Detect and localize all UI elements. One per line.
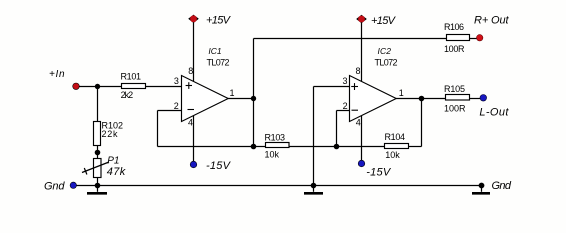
svg-text:8: 8: [356, 66, 361, 76]
svg-text:4: 4: [356, 118, 361, 128]
svg-text:2k2: 2k2: [121, 90, 134, 100]
svg-text:+In: +In: [49, 69, 65, 80]
svg-text:-15V: -15V: [206, 160, 232, 172]
svg-text:47k: 47k: [107, 166, 126, 178]
svg-text:100R: 100R: [444, 44, 465, 54]
svg-text:8: 8: [188, 66, 193, 76]
svg-text:R106: R106: [444, 22, 464, 32]
svg-text:P1: P1: [107, 156, 119, 167]
svg-text:Gnd: Gnd: [44, 181, 65, 193]
svg-text:1: 1: [399, 88, 404, 98]
svg-text:4: 4: [188, 118, 193, 128]
svg-text:TL072: TL072: [375, 58, 398, 68]
svg-text:100R: 100R: [444, 104, 466, 114]
svg-text:R105: R105: [444, 84, 465, 94]
svg-text:R104: R104: [385, 132, 406, 142]
svg-text:22k: 22k: [102, 129, 119, 139]
svg-text:+15V: +15V: [206, 14, 232, 26]
svg-text:IC2: IC2: [378, 46, 392, 56]
svg-text:2: 2: [174, 101, 179, 111]
svg-text:IC1: IC1: [208, 46, 222, 56]
svg-text:3: 3: [343, 76, 348, 86]
svg-text:10k: 10k: [265, 150, 280, 160]
svg-text:3: 3: [174, 76, 179, 86]
svg-text:R+ Out: R+ Out: [474, 15, 509, 27]
svg-text:R103: R103: [265, 132, 286, 142]
svg-text:TL072: TL072: [207, 58, 230, 68]
svg-text:L-Out: L-Out: [479, 107, 509, 119]
svg-text:1: 1: [230, 88, 235, 98]
svg-text:+15V: +15V: [371, 15, 397, 27]
svg-text:2: 2: [343, 101, 348, 111]
svg-text:10k: 10k: [385, 150, 400, 160]
svg-text:R101: R101: [121, 72, 142, 82]
svg-text:Gnd: Gnd: [492, 180, 512, 192]
svg-text:-15V: -15V: [366, 167, 392, 179]
